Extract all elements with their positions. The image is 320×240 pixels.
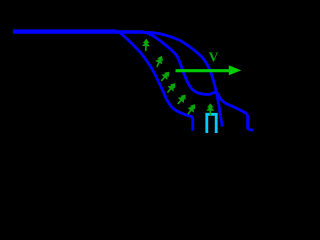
svg-text:V: V (209, 49, 219, 64)
